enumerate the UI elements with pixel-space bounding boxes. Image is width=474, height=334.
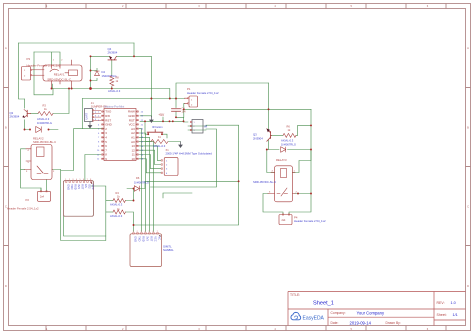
svg-text:2N3904: 2N3904 xyxy=(253,136,263,140)
wire capacitor C1 top lead xyxy=(175,99,177,108)
svg-text:2x4: 2x4 xyxy=(282,219,287,222)
svg-text:Header Female 2.54_1x2: Header Female 2.54_1x2 xyxy=(187,91,219,95)
svg-text:RAW: RAW xyxy=(128,110,135,114)
connector J1 JUMPER-E8 xyxy=(85,101,108,122)
svg-text:GND: GND xyxy=(105,123,111,127)
svg-text:1: 1 xyxy=(98,111,99,113)
transistor Q2 2N3904 xyxy=(10,109,31,118)
resistor R5 1k xyxy=(110,208,125,218)
relay RELAY3 SRD-05VDC-SL-C xyxy=(253,158,298,202)
wire IR pin stubs xyxy=(188,126,206,130)
svg-text:Header Female 2.54_1x2: Header Female 2.54_1x2 xyxy=(7,207,39,211)
wire relay1 inner loop top xyxy=(34,52,60,65)
wire relay2 pin4 loop xyxy=(21,149,41,192)
svg-text:EasyEDA: EasyEDA xyxy=(303,316,325,322)
svg-text:13: 13 xyxy=(131,144,135,148)
ground (below J1) xyxy=(88,122,93,129)
svg-text:+5V: +5V xyxy=(158,113,165,117)
wire R4 left xyxy=(106,200,113,202)
wire SIM feed left xyxy=(133,225,135,232)
svg-text:20: 20 xyxy=(141,129,143,131)
wire Q3 collector rail xyxy=(268,83,270,130)
wire x134 jog right down xyxy=(134,56,151,116)
svg-text:19: 19 xyxy=(141,133,143,135)
svg-text:1.0: 1.0 xyxy=(451,301,456,305)
svg-text:RXI: RXI xyxy=(105,114,110,118)
wire relay1 inner loop left xyxy=(34,52,53,95)
svg-text:Date:: Date: xyxy=(331,321,339,325)
svg-text:Company:: Company: xyxy=(331,311,346,315)
wire vertical x311 xyxy=(310,109,312,193)
wire D4 jogs xyxy=(91,68,98,80)
wire D4 rail top xyxy=(91,55,110,57)
svg-text:9: 9 xyxy=(98,146,99,148)
svg-text:5: 5 xyxy=(149,231,150,233)
svg-text:Q3: Q3 xyxy=(253,133,257,137)
svg-text:4: 4 xyxy=(76,179,77,181)
wire capacitor C1 bottom lead xyxy=(175,112,177,117)
svg-text:4: 4 xyxy=(145,231,146,233)
svg-text:SRD-05VDC-SL-C: SRD-05VDC-SL-C xyxy=(253,180,276,184)
wire R4 right xyxy=(126,189,134,201)
wire left loop top bus xyxy=(19,42,135,44)
svg-text:6: 6 xyxy=(83,179,84,181)
wire Q2 emitter down xyxy=(24,120,26,130)
svg-text:18: 18 xyxy=(141,137,143,139)
svg-text:1: 1 xyxy=(133,231,134,233)
svg-text:23: 23 xyxy=(141,116,143,118)
diode D5 1N4007RLG xyxy=(281,139,296,153)
wire Q4 emitter to junction xyxy=(117,55,135,57)
svg-text:2x4: 2x4 xyxy=(40,196,45,199)
wire IC pin12 to conn xyxy=(139,150,161,164)
svg-text:A0: A0 xyxy=(131,140,135,144)
wire ESP below loop xyxy=(64,216,106,236)
wire P2 stub a xyxy=(40,188,42,191)
svg-text:2: 2 xyxy=(137,231,138,233)
svg-text:4: 4 xyxy=(98,124,99,126)
svg-text:VCC: VCC xyxy=(129,123,135,127)
svg-text:2019-09-14: 2019-09-14 xyxy=(350,320,372,325)
wire P1 row xyxy=(82,98,184,100)
wire relay2 pin2 long xyxy=(52,170,106,241)
svg-text:10: 10 xyxy=(131,157,135,161)
wire ground stub IC xyxy=(140,115,151,117)
wire J1 loop xyxy=(82,99,104,129)
svg-text:Your Company: Your Company xyxy=(357,311,385,316)
svg-text:P4: P4 xyxy=(294,215,298,219)
svg-text:15: 15 xyxy=(141,150,143,152)
ground (IC VCC row) xyxy=(149,116,154,123)
ground (near conn X1) xyxy=(178,142,183,149)
svg-text:3: 3 xyxy=(98,120,99,122)
svg-text:UART: UART xyxy=(86,112,89,119)
svg-text:2N3904: 2N3904 xyxy=(108,51,118,55)
wire +5V stub xyxy=(162,117,164,121)
wire cap row tie xyxy=(176,117,184,121)
svg-text:7: 7 xyxy=(157,231,158,233)
wire IC pin13 to conn xyxy=(139,146,161,161)
svg-text:REV:: REV: xyxy=(437,301,445,305)
wire diode D5 row xyxy=(267,149,311,151)
wire R6 up xyxy=(296,125,311,135)
resistor R8 1k xyxy=(108,76,121,93)
wire IC GND stub xyxy=(150,116,152,117)
IC U1 Arduino Pro Mini xyxy=(97,104,143,161)
capacitor C4 104 xyxy=(172,108,187,114)
IR receiver U3 xyxy=(190,120,207,134)
connector P4 Header Female 2.54_1x2 xyxy=(279,214,326,225)
svg-text:7: 7 xyxy=(87,179,88,181)
wire relay2 coil up xyxy=(61,129,83,171)
svg-text:8: 8 xyxy=(90,179,91,181)
svg-text:7: 7 xyxy=(98,137,99,139)
wire bundle down A2 xyxy=(139,133,145,232)
wire R5 right xyxy=(126,212,134,225)
wire P1 pin2 drop xyxy=(183,103,186,117)
resistor R6 1k xyxy=(283,125,296,138)
svg-text:2: 2 xyxy=(98,116,99,118)
pushbutton K1 IR button xyxy=(147,125,163,139)
connector P3 Header-Female 2.54_1x2 xyxy=(22,57,61,80)
wire R3 to bus xyxy=(53,89,69,114)
svg-text:5: 5 xyxy=(80,179,81,181)
svg-text:SIM7L: SIM7L xyxy=(163,244,172,248)
wire D4 rail xyxy=(90,56,92,88)
svg-text:16: 16 xyxy=(141,146,143,148)
connector X1 2005-1x4P gold-plated xyxy=(161,148,212,175)
power flag +5V xyxy=(158,113,165,117)
wire relay3 pin3 to P4 xyxy=(263,194,283,215)
wire Q2 collector stub xyxy=(24,99,26,108)
svg-text:A2: A2 xyxy=(131,131,135,135)
svg-text:22: 22 xyxy=(141,120,143,122)
wire row 193 xyxy=(163,193,192,198)
svg-text:14: 14 xyxy=(141,154,143,156)
wire R5 left xyxy=(106,211,113,213)
wire bundle down A0 xyxy=(139,142,153,232)
svg-text:SRD-05VDC-BL-C: SRD-05VDC-BL-C xyxy=(33,140,56,144)
svg-text:A1: A1 xyxy=(131,136,135,140)
wire IR loop right xyxy=(134,125,239,225)
svg-text:2: 2 xyxy=(69,179,70,181)
resistor R7 xyxy=(151,140,168,148)
wire Q4 base down to R8 xyxy=(111,60,113,75)
wire diode D2 row xyxy=(25,129,59,131)
svg-text:13: 13 xyxy=(141,159,143,161)
wire relay2 pin3 xyxy=(21,169,25,171)
svg-text:RST: RST xyxy=(105,118,111,122)
wire relay3 pin1 xyxy=(293,150,312,173)
svg-text:Q2: Q2 xyxy=(10,111,14,115)
wire R7 leads xyxy=(146,141,181,143)
svg-text:17: 17 xyxy=(141,142,143,144)
wire relay3 pin2 to P4 xyxy=(289,194,311,215)
svg-text:IR: IR xyxy=(205,125,208,129)
wire IC pin11 to conn xyxy=(139,155,161,169)
svg-text:SA680L: SA680L xyxy=(163,248,174,252)
wire Q3 branch right xyxy=(184,108,311,110)
diode D2 1N4007RLG xyxy=(36,117,52,132)
title block xyxy=(288,292,466,326)
svg-text:5: 5 xyxy=(98,129,99,131)
svg-text:P2: P2 xyxy=(26,198,30,202)
module U4 SIM800L xyxy=(130,231,174,267)
svg-text:Sheet:: Sheet: xyxy=(437,313,447,317)
wire vertical x134 xyxy=(133,43,135,56)
svg-text:3: 3 xyxy=(72,179,73,181)
svg-text:GND: GND xyxy=(128,114,134,118)
svg-text:6: 6 xyxy=(98,133,99,135)
transistor Q4 2N3904 xyxy=(108,47,118,60)
svg-text:11: 11 xyxy=(132,153,135,157)
wire bundle down A3 xyxy=(139,129,141,232)
svg-text:2N3904: 2N3904 xyxy=(10,115,20,119)
svg-text:P3: P3 xyxy=(27,57,31,61)
relay RELAY2 SRD-05VDC-BL-C xyxy=(25,137,57,180)
svg-text:TXO: TXO xyxy=(105,110,112,114)
wire relay3 pin4 xyxy=(267,150,275,173)
svg-text:P1: P1 xyxy=(187,87,191,91)
wire IC pin10 to conn xyxy=(139,159,161,173)
svg-text:24: 24 xyxy=(141,111,143,113)
wire button right lead xyxy=(163,134,167,138)
transistor Q3 2N3904 xyxy=(253,129,272,142)
svg-text:Sheet_1: Sheet_1 xyxy=(313,301,334,307)
svg-text:Drawn By:: Drawn By: xyxy=(386,321,401,325)
svg-text:10: 10 xyxy=(97,150,99,152)
svg-text:RELAY1: RELAY1 xyxy=(54,73,65,77)
svg-text:RST: RST xyxy=(129,118,135,122)
wire Q3 base to R6 xyxy=(272,134,284,136)
svg-text:Header Female 2.54_1x2: Header Female 2.54_1x2 xyxy=(294,219,326,223)
svg-text:1/1: 1/1 xyxy=(453,313,458,317)
svg-text:3: 3 xyxy=(141,231,142,233)
diode D6 1N4007RLG xyxy=(134,176,149,191)
wire bundle down A1 xyxy=(139,137,149,231)
wire 5V row xyxy=(140,120,188,123)
diode D4 1N4007RLG xyxy=(95,70,117,78)
wire left loop vertical xyxy=(19,43,25,99)
wire P2 pin2 up xyxy=(46,180,48,192)
svg-text:A3: A3 xyxy=(131,127,135,131)
svg-text:21: 21 xyxy=(141,124,143,126)
wire Q3 emitter rail xyxy=(268,140,270,150)
wire Q2 base to R3 xyxy=(31,113,38,115)
svg-text:104: 104 xyxy=(182,111,187,114)
svg-text:RELAY2: RELAY2 xyxy=(33,137,44,141)
module U2 ESP8266 xyxy=(64,179,96,216)
connector P2 Header Female 2.54_1x2 xyxy=(7,191,51,211)
wire ESP feed xyxy=(85,155,101,181)
wire bottom bus under relay1 xyxy=(53,89,170,99)
wire diode D6 row xyxy=(127,181,239,188)
svg-text:12: 12 xyxy=(97,159,99,161)
svg-text:TITLE:: TITLE: xyxy=(290,293,300,297)
svg-text:RELAY3: RELAY3 xyxy=(276,158,287,162)
relay RELAY1 SRD-05VDC-SL-C xyxy=(43,59,82,88)
wire R8 bottom xyxy=(111,87,113,89)
connector P1 Header Female 2.54_1x2 xyxy=(185,87,220,107)
wire button feed xyxy=(145,121,147,134)
wire P1 loop top xyxy=(176,83,269,99)
svg-text:SRD-05VDC-SL-C: SRD-05VDC-SL-C xyxy=(47,77,71,81)
svg-text:11: 11 xyxy=(97,154,99,156)
wire IR loop inner xyxy=(150,129,216,187)
resistor R3 1k xyxy=(38,103,53,115)
wire relay1 bottom stubs xyxy=(52,84,54,89)
svg-text:8: 8 xyxy=(98,142,99,144)
resistor R4 1k xyxy=(110,191,125,206)
svg-text:1: 1 xyxy=(65,179,66,181)
svg-text:12: 12 xyxy=(131,148,135,152)
svg-text:6: 6 xyxy=(153,231,154,233)
